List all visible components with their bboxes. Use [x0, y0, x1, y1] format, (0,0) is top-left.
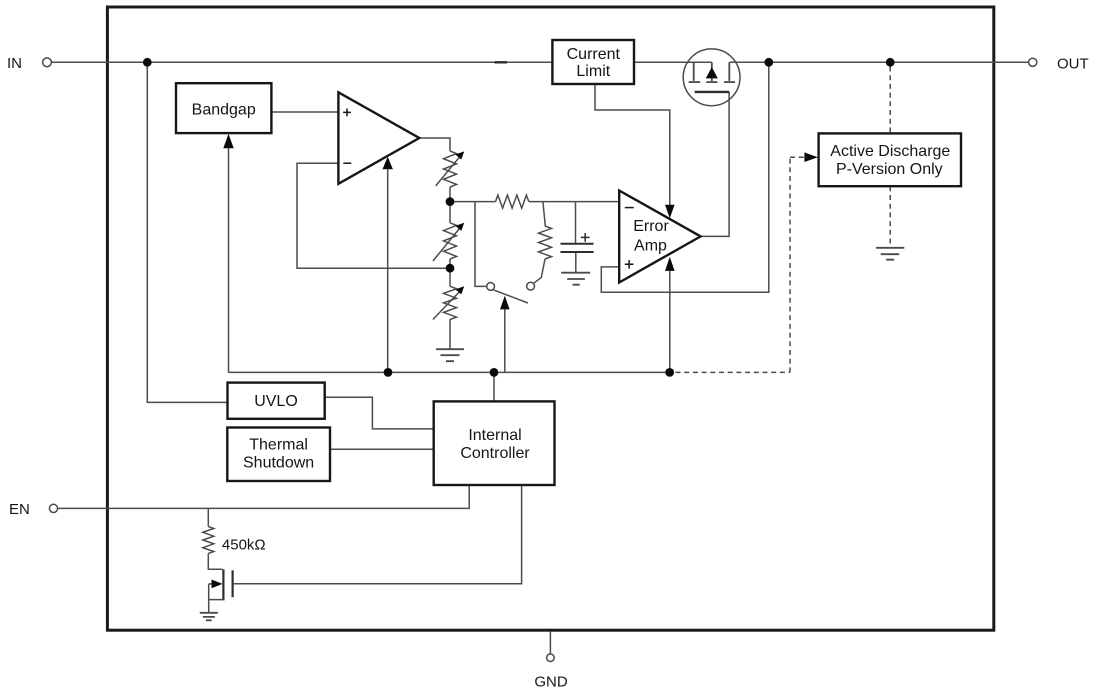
- svg-text:450kΩ: 450kΩ: [222, 537, 266, 554]
- svg-text:P-Version Only: P-Version Only: [836, 161, 943, 178]
- svg-text:Internal: Internal: [468, 427, 521, 444]
- svg-text:Error: Error: [633, 218, 669, 235]
- svg-text:Controller: Controller: [460, 445, 530, 462]
- svg-text:Amp: Amp: [634, 238, 667, 255]
- svg-text:IN: IN: [7, 55, 22, 72]
- svg-text:Thermal: Thermal: [249, 437, 308, 454]
- svg-text:Shutdown: Shutdown: [243, 455, 314, 472]
- svg-text:Current: Current: [567, 46, 621, 63]
- svg-text:Limit: Limit: [576, 63, 610, 80]
- svg-text:EN: EN: [9, 501, 30, 518]
- svg-text:UVLO: UVLO: [254, 393, 298, 410]
- svg-text:Active Discharge: Active Discharge: [830, 143, 950, 160]
- svg-text:OUT: OUT: [1057, 56, 1089, 73]
- svg-text:Bandgap: Bandgap: [192, 101, 256, 118]
- svg-text:GND: GND: [534, 674, 568, 691]
